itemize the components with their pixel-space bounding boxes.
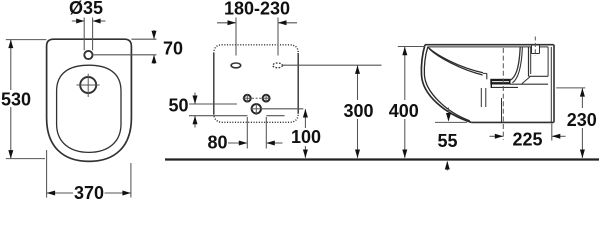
svg-text:370: 370 xyxy=(74,183,104,201)
svg-text:230: 230 xyxy=(567,110,597,130)
svg-text:400: 400 xyxy=(389,101,419,121)
svg-text:225: 225 xyxy=(512,130,542,150)
svg-text:70: 70 xyxy=(163,39,183,59)
svg-text:50: 50 xyxy=(168,96,188,116)
svg-text:300: 300 xyxy=(343,101,373,121)
svg-text:55: 55 xyxy=(437,131,457,151)
svg-text:80: 80 xyxy=(207,133,227,153)
svg-text:100: 100 xyxy=(291,127,321,147)
svg-text:530: 530 xyxy=(1,90,31,110)
svg-text:Ø35: Ø35 xyxy=(69,0,103,18)
svg-text:180-230: 180-230 xyxy=(224,0,290,19)
